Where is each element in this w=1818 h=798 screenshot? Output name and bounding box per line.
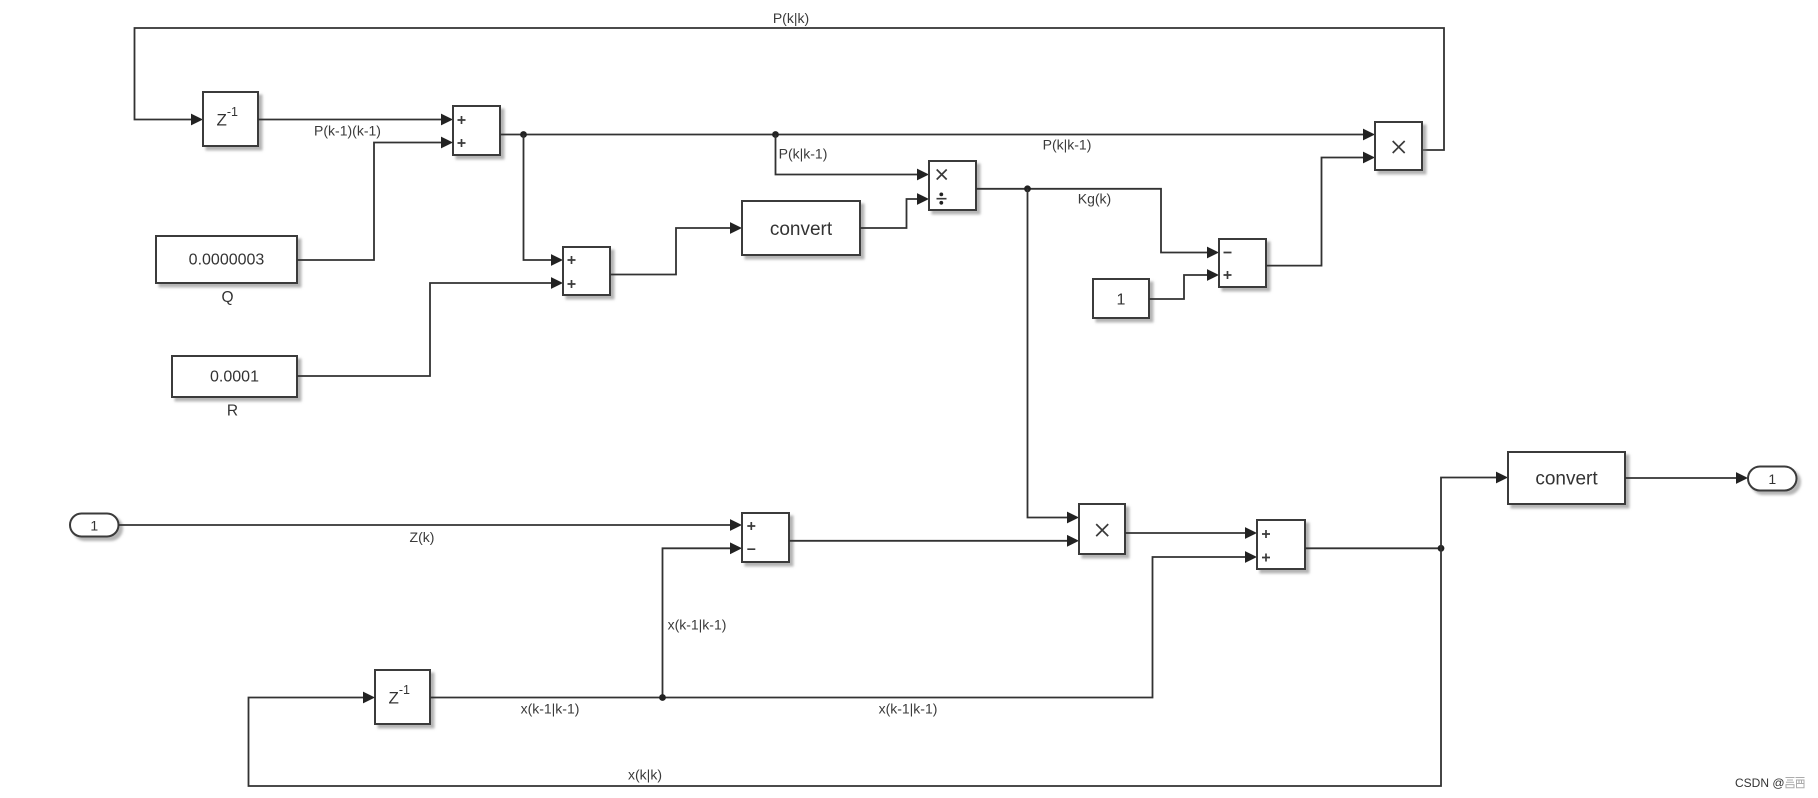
constant one xyxy=(1093,279,1149,318)
sum S1 xyxy=(453,106,500,155)
svg-text:x(k-1|k-1): x(k-1|k-1) xyxy=(668,617,727,633)
unit delay Z2 xyxy=(375,670,430,724)
unit delay Z1 xyxy=(203,92,258,146)
svg-text:P(k|k-1): P(k|k-1) xyxy=(779,146,828,162)
svg-text:1: 1 xyxy=(1768,471,1776,487)
wire S3 out to product P2 input 2 xyxy=(789,535,1079,547)
svg-text:x(k-1|k-1): x(k-1|k-1) xyxy=(521,701,580,717)
svg-text:x(k-1|k-1): x(k-1|k-1) xyxy=(879,701,938,717)
product block P2 xyxy=(1079,504,1125,554)
sum S3 plus minus xyxy=(742,513,789,562)
product block P1 xyxy=(1375,122,1422,170)
svg-text:0.0001: 0.0001 xyxy=(210,369,259,386)
svg-text:1: 1 xyxy=(1117,292,1126,309)
svg-text:CSDN @: CSDN @ xyxy=(1735,776,1785,790)
wire C2 out to output port 1 xyxy=(1625,472,1748,484)
wire Q out to sum S1 input 2 xyxy=(297,137,453,260)
svg-text:0.0000003: 0.0000003 xyxy=(189,252,265,269)
svg-text:convert: convert xyxy=(770,219,833,240)
wire S2 out to convert C1 input xyxy=(610,222,742,274)
wire R out to sum S2 input 2 xyxy=(297,277,563,376)
output port 1 xyxy=(1748,467,1797,491)
wire Z1 out to sum S1 input 1 xyxy=(258,114,453,126)
svg-text:P(k|k): P(k|k) xyxy=(773,10,809,26)
svg-text:Z(k): Z(k) xyxy=(410,529,435,545)
wire C1 out to divide D1 input 2 xyxy=(860,193,929,228)
wire input port to sum S3 input 1 (net Z(k)) xyxy=(119,519,743,531)
wire S5 out up to product P1 input 2 xyxy=(1266,152,1375,266)
junction D xyxy=(659,694,666,701)
sum S2 xyxy=(563,247,610,295)
wire junction B down to divide D1 input 1 xyxy=(776,135,930,181)
watermark CSDN @xixi xyxy=(1735,776,1805,790)
svg-text:R: R xyxy=(227,403,238,420)
divide block D1 xyxy=(929,161,976,210)
data type conversion block C1 xyxy=(742,201,860,255)
svg-text:P(k-1)(k-1): P(k-1)(k-1) xyxy=(314,123,381,139)
junction C xyxy=(1024,185,1031,192)
svg-text:x(k|k): x(k|k) xyxy=(628,767,662,783)
sum S4 xyxy=(1257,520,1305,569)
constant Q value 0.0000003 xyxy=(156,236,297,283)
wire P(k|k) feedback loop from product P1 output to unit delay Z1 input xyxy=(135,28,1445,150)
junction B xyxy=(772,131,779,138)
wire junction C down to product P2 input 1 xyxy=(1028,189,1080,524)
svg-text:Kg(k): Kg(k) xyxy=(1078,191,1111,207)
wire junction D up to sum S3 input 2 xyxy=(663,542,743,697)
junction E xyxy=(1438,545,1445,552)
subtract block S5 xyxy=(1219,239,1266,287)
wire junction E down feedback to Z2 input (net x(k|k)) xyxy=(249,548,1442,786)
wire S4 out to junction E xyxy=(1305,547,1441,549)
constant R value 0.0001 xyxy=(172,356,297,397)
wire D1 out to subtract S5 input 1 (net Kg(k)) xyxy=(976,189,1219,259)
input port 1 xyxy=(70,514,119,537)
junction A xyxy=(520,131,527,138)
wire constant one out to subtract S5 input 2 xyxy=(1149,269,1219,299)
svg-text:P(k|k-1): P(k|k-1) xyxy=(1043,137,1092,153)
wire P2 out to sum S4 input 1 xyxy=(1125,527,1257,539)
wire Z2 out across to sum S4 input 2 (net x(k-1|k-1)) xyxy=(430,551,1257,697)
wire junction E up to convert C2 input xyxy=(1441,472,1508,549)
wire S1 out across to product P1 input 1 (net P(k|k-1)) xyxy=(500,129,1375,141)
svg-text:Q: Q xyxy=(221,289,233,306)
svg-text:convert: convert xyxy=(1535,469,1598,490)
wire junction A down to sum S2 input 1 xyxy=(524,135,564,266)
data type conversion block C2 xyxy=(1508,452,1625,504)
svg-text:1: 1 xyxy=(90,518,98,534)
